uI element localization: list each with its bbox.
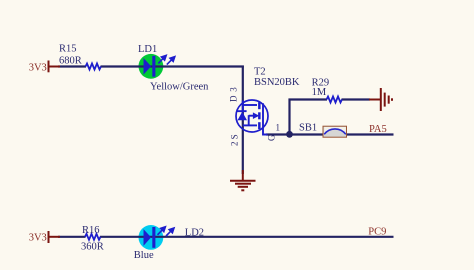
svg-text:3V3: 3V3 — [29, 233, 47, 244]
svg-text:SB1: SB1 — [299, 122, 317, 133]
svg-text:360R: 360R — [81, 242, 104, 253]
svg-text:G: G — [266, 134, 276, 141]
svg-text:S: S — [230, 134, 240, 139]
svg-text:3V3: 3V3 — [29, 62, 47, 73]
svg-text:D: D — [229, 95, 239, 102]
svg-text:BSN20BK: BSN20BK — [254, 77, 300, 88]
svg-text:1: 1 — [276, 123, 281, 133]
svg-text:Blue: Blue — [134, 250, 154, 261]
svg-text:R15: R15 — [59, 43, 77, 54]
svg-text:PA5: PA5 — [369, 124, 387, 135]
svg-text:PC9: PC9 — [368, 227, 386, 238]
svg-text:3: 3 — [229, 87, 239, 92]
svg-text:1M: 1M — [312, 87, 327, 98]
svg-text:2: 2 — [230, 142, 240, 147]
svg-text:LD2: LD2 — [185, 228, 204, 239]
svg-text:680R: 680R — [59, 55, 82, 66]
svg-text:Yellow/Green: Yellow/Green — [150, 81, 209, 92]
svg-text:R16: R16 — [82, 225, 100, 236]
svg-text:LD1: LD1 — [138, 44, 157, 55]
svg-text:T2: T2 — [254, 67, 266, 78]
